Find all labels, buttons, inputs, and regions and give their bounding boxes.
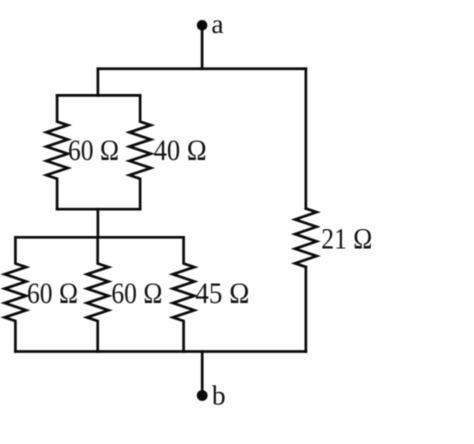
wire bottom rail — [15, 350, 305, 353]
node b terminal dot — [197, 390, 208, 401]
svg-text:60 Ω: 60 Ω — [111, 278, 162, 310]
svg-text:45 Ω: 45 Ω — [195, 278, 249, 310]
wire from node a down to top rail — [201, 25, 204, 68]
resistor R3 60 ohm (left of second group) — [5, 237, 27, 351]
svg-text:60 Ω: 60 Ω — [27, 278, 78, 310]
wire right branch lower (21 ohm down to bottom rail) — [305, 267, 308, 352]
wire drop from top rail to first parallel group — [97, 69, 100, 96]
svg-text:40 Ω: 40 Ω — [154, 135, 207, 167]
resistor R2 40 ohm (right of first group) — [129, 95, 151, 209]
resistor R4 60 ohm (middle of second group) — [87, 237, 109, 351]
wire from bottom rail down to node b — [201, 352, 204, 396]
svg-text:21 Ω: 21 Ω — [321, 224, 372, 256]
wire top of second parallel group — [15, 236, 183, 239]
wire top of first parallel group — [57, 94, 140, 97]
svg-text:a: a — [211, 8, 223, 39]
resistor R1 60 ohm (left of first group) — [46, 95, 68, 209]
wire between first and second parallel groups — [97, 209, 100, 237]
svg-text:60 Ω: 60 Ω — [68, 135, 119, 167]
node a terminal dot — [197, 20, 208, 31]
resistor R5 45 ohm (right of second group) — [173, 237, 195, 351]
resistor R6 21 ohm — [295, 209, 317, 268]
svg-text:b: b — [212, 380, 226, 411]
wire top rail — [98, 67, 306, 70]
wire bottom of first parallel group — [57, 208, 140, 211]
wire right branch upper (top rail down to 21 ohm) — [305, 69, 308, 209]
